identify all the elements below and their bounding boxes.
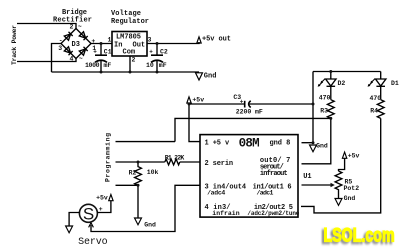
servo motor — [66, 194, 114, 248]
resistor R3 470 — [319, 94, 334, 118]
resistor R4 470 — [370, 95, 385, 118]
svg-text:10k: 10k — [147, 169, 159, 176]
svg-text:R1 22K: R1 22K — [165, 154, 185, 161]
wire R3 bottom down to pin7 — [302, 118, 331, 163]
diode bottom-right — [79, 47, 87, 55]
svg-text:/adc4: /adc4 — [207, 189, 225, 196]
svg-text:+: + — [149, 49, 153, 56]
svg-text:+: + — [99, 206, 103, 213]
svg-text:Com: Com — [123, 49, 136, 57]
servo signal arrowhead — [89, 223, 94, 228]
svg-text:LM7805: LM7805 — [116, 34, 141, 42]
diode top-left — [64, 32, 72, 40]
wire +5v down to IC pin1 — [189, 104, 200, 142]
svg-text:D2: D2 — [338, 80, 346, 87]
wire programming pin1 — [116, 141, 176, 143]
svg-text:mF: mF — [104, 62, 112, 69]
svg-text:S: S — [83, 204, 94, 223]
svg-text:Regulator: Regulator — [111, 18, 149, 26]
wire +5v to C3 — [189, 103, 245, 104]
capacitor C3 — [233, 94, 262, 116]
diode top-right — [79, 32, 87, 40]
svg-text:+: + — [91, 38, 95, 45]
wire bridge plus to regulator In — [91, 43, 112, 45]
wire track power bottom — [17, 59, 76, 62]
wire C3 to gnd drop — [250, 103, 314, 105]
svg-text:4: 4 — [70, 56, 74, 63]
svg-text:+5v: +5v — [348, 153, 360, 160]
diode bottom-left — [64, 47, 72, 55]
svg-text:R3: R3 — [320, 108, 328, 115]
LSOL.com logo — [324, 224, 395, 246]
junction dots middle — [188, 103, 191, 106]
ground symbol main rail — [196, 73, 217, 81]
capacitor C2 — [146, 44, 168, 73]
svg-text:R2: R2 — [129, 170, 137, 177]
voltage regulator LM7805 — [108, 32, 152, 64]
svg-text:2 serin: 2 serin — [205, 160, 234, 168]
capacitor C1 — [85, 44, 112, 73]
ground symbol servo — [66, 226, 73, 233]
svg-text:Gnd: Gnd — [344, 195, 356, 202]
IC U1 PICAXE-08M — [200, 135, 300, 218]
svg-text:infrain: infrain — [212, 210, 239, 217]
wire regulator Out to +5v out — [147, 42, 199, 44]
ground symbol below pot — [335, 195, 355, 205]
wire regulator Com to ground rail — [129, 56, 131, 72]
svg-text:1 +5 v: 1 +5 v — [205, 139, 230, 147]
svg-text:3: 3 — [58, 45, 62, 52]
svg-text:08M: 08M — [239, 137, 260, 151]
svg-text:+5v out: +5v out — [202, 36, 231, 44]
svg-text:C1: C1 — [104, 49, 112, 56]
wire IC pin8 to gnd — [302, 142, 314, 144]
svg-text:D1: D1 — [391, 80, 399, 87]
junction dots R1/R2 — [137, 161, 140, 164]
bridge rectifier D3 — [58, 24, 96, 63]
svg-text:D3: D3 — [72, 41, 80, 49]
svg-text:2: 2 — [132, 57, 136, 64]
ground symbol at pin8 — [310, 143, 328, 152]
svg-text:C2: C2 — [160, 49, 168, 56]
svg-text:~: ~ — [78, 24, 82, 31]
wire gnd drop (LED rail to pin8 gnd) — [312, 72, 314, 143]
svg-text:+: + — [240, 99, 244, 106]
wire track power top — [17, 24, 76, 29]
servo right wire to +5v — [97, 201, 111, 213]
svg-text:2200 mF: 2200 mF — [236, 109, 263, 116]
svg-text:470: 470 — [370, 95, 382, 102]
svg-text:Programming: Programming — [105, 133, 112, 182]
+5v out arrow — [197, 36, 231, 44]
svg-text:Gnd: Gnd — [144, 221, 156, 228]
wire bridge minus output to ground rail — [52, 44, 62, 73]
svg-text:infraout: infraout — [260, 170, 288, 178]
svg-text:In: In — [114, 42, 122, 50]
svg-text:/adc2/pwm2/tune: /adc2/pwm2/tune — [247, 210, 299, 217]
wire ground rail — [52, 71, 200, 73]
LED D2 — [318, 72, 346, 100]
resistor R2 10k — [129, 162, 159, 185]
svg-text:2: 2 — [70, 24, 74, 31]
svg-text:Track Power: Track Power — [11, 25, 18, 65]
svg-text:-: - — [59, 37, 63, 44]
svg-text:LSOL.com: LSOL.com — [324, 224, 395, 246]
svg-text:+5v: +5v — [96, 194, 108, 201]
svg-text:Gnd: Gnd — [316, 143, 328, 150]
svg-text:R4: R4 — [370, 108, 378, 115]
+5v arrow at pot — [342, 152, 359, 159]
emission arrows — [322, 79, 325, 82]
junction dots power section — [100, 42, 103, 45]
wire R4 down to pin5 jog — [301, 118, 381, 212]
svg-text:+5v: +5v — [192, 97, 204, 104]
wire R2 to ground — [137, 185, 139, 218]
emission arrows — [372, 79, 375, 82]
svg-text:U1: U1 — [303, 173, 311, 181]
potentiometer R5 Pot2 — [335, 158, 359, 198]
svg-text:Pot2: Pot2 — [344, 185, 360, 192]
svg-text:/adc1: /adc1 — [257, 189, 274, 196]
LED D1 — [368, 72, 399, 100]
svg-text:Voltage: Voltage — [111, 10, 141, 18]
svg-text:gnd 8: gnd 8 — [270, 139, 291, 147]
ground symbol below R2 — [135, 218, 157, 228]
+5v arrow servo — [109, 195, 113, 201]
svg-text:1: 1 — [108, 37, 112, 44]
resistor R1 22K — [165, 154, 185, 165]
wire programming pin3 to R2 — [116, 184, 139, 186]
svg-text:~: ~ — [79, 56, 83, 63]
svg-text:mF: mF — [159, 62, 167, 69]
wire programming pin2 to IC pin2 with R1 — [116, 161, 165, 163]
wire IC pin3 to servo signal — [91, 185, 200, 231]
svg-text:3: 3 — [148, 37, 152, 44]
svg-text:Servo: Servo — [78, 237, 108, 248]
svg-text:+: + — [93, 49, 97, 56]
wire LED rail — [313, 71, 381, 73]
servo left wire to gnd — [69, 213, 79, 227]
wire R3 bottom junction to programming riser — [175, 118, 331, 141]
svg-text:Gnd: Gnd — [204, 73, 217, 81]
svg-text:470: 470 — [319, 94, 331, 101]
svg-text:10: 10 — [146, 62, 154, 69]
svg-text:1000: 1000 — [85, 62, 100, 69]
wire IC pin6 to pot wiper — [302, 184, 334, 186]
+5v arrow at C3 wire — [187, 97, 204, 104]
